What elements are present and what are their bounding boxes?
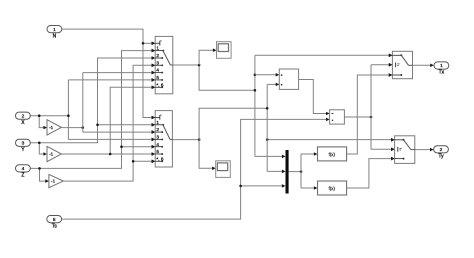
svg-text:1: 1 [156,46,159,51]
svg-text:*, 6: *, 6 [156,82,163,87]
svg-text:5: 5 [53,217,56,223]
svg-text:1: 1 [156,120,159,125]
svg-text:-1: -1 [49,152,53,157]
svg-text:f(x): f(x) [329,186,336,191]
svg-text:-1: -1 [49,125,53,130]
svg-text:1: 1 [440,63,443,69]
svg-text:3: 3 [156,135,159,140]
svg-text:4: 4 [156,142,159,147]
svg-text:-1: -1 [51,179,55,184]
svg-text:*, 6: *, 6 [156,156,163,161]
svg-text:2: 2 [22,113,25,119]
svg-text:Tx: Tx [439,70,445,76]
svg-text:3: 3 [156,60,159,65]
svg-text:N: N [53,33,57,39]
svg-text:5: 5 [156,149,159,154]
svg-text:Ts: Ts [52,223,58,229]
svg-text:1: 1 [53,27,56,33]
svg-text:3: 3 [22,141,25,147]
svg-text:2: 2 [156,127,159,132]
svg-text:4: 4 [156,68,159,73]
svg-text:f(x): f(x) [329,152,336,157]
svg-text:Ty: Ty [438,154,444,160]
svg-text:4: 4 [22,166,25,172]
svg-text:2: 2 [156,53,159,58]
svg-text:Z: Z [21,173,24,179]
svg-text:5: 5 [156,75,159,80]
svg-text:2: 2 [440,147,443,153]
